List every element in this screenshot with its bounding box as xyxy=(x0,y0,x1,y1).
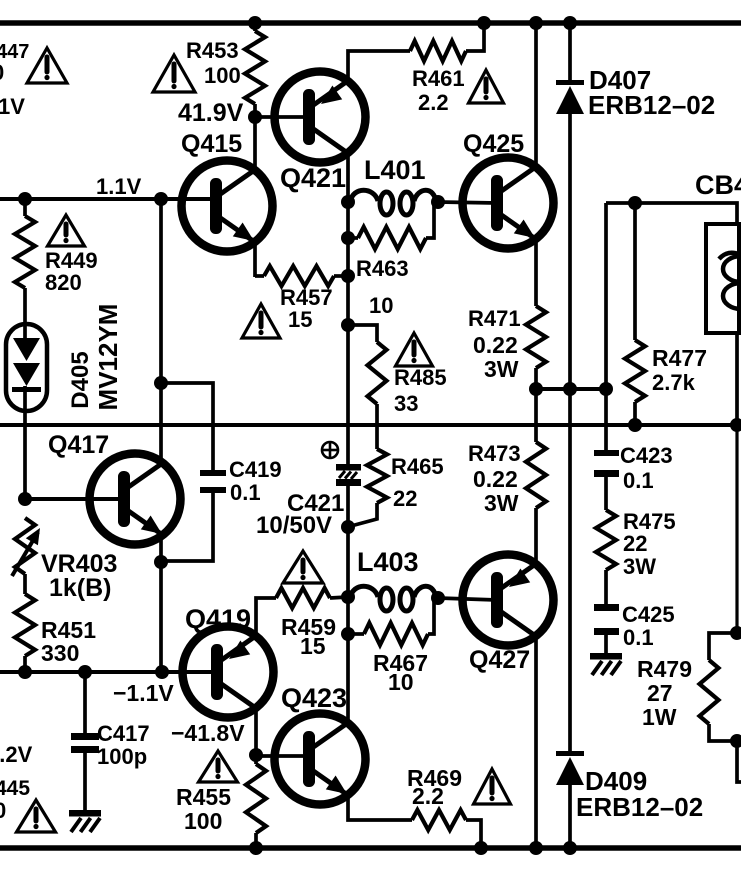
warning triangle xyxy=(474,769,511,804)
wire CB4 feed line xyxy=(606,203,737,226)
node emitter resistor junction xyxy=(529,382,543,396)
svg-text:447: 447 xyxy=(0,41,29,63)
label C421 xyxy=(256,490,344,539)
svg-text:41.9V: 41.9V xyxy=(178,99,244,127)
node 1.1V junction xyxy=(18,192,32,206)
wire -1.1V rail xyxy=(0,670,219,674)
label R485 xyxy=(394,365,447,416)
svg-text:22: 22 xyxy=(623,531,647,556)
node top rail junction xyxy=(563,16,577,30)
label -1.1V xyxy=(113,680,174,706)
label R471 xyxy=(468,306,521,382)
svg-text:100p: 100p xyxy=(97,744,147,769)
label 1.1V xyxy=(96,174,142,199)
warning triangle xyxy=(153,55,195,92)
wire Q425 emitter xyxy=(534,239,538,306)
label R475 xyxy=(623,509,676,579)
wire xyxy=(23,409,27,499)
svg-text:0.1: 0.1 xyxy=(623,625,654,650)
label R449 xyxy=(45,248,98,295)
wire Q417 base xyxy=(25,497,125,501)
node L401 left junction xyxy=(341,195,355,209)
svg-text:−41.8V: −41.8V xyxy=(171,720,245,746)
wire xyxy=(534,368,538,389)
wire xyxy=(23,199,27,216)
wire xyxy=(346,486,350,723)
label (cut) xyxy=(0,60,4,85)
label R469 xyxy=(407,765,462,809)
wire 1.1V rail xyxy=(0,197,218,201)
wire xyxy=(466,820,481,848)
warning triangle xyxy=(48,215,85,246)
svg-text:R473: R473 xyxy=(468,441,521,466)
label D405 xyxy=(67,351,94,408)
svg-text:10: 10 xyxy=(388,669,414,695)
wire Q417 emitter xyxy=(159,535,163,562)
label R463 xyxy=(356,256,409,318)
transistor Q425 xyxy=(463,158,554,249)
svg-text:27: 27 xyxy=(647,680,673,706)
wire xyxy=(568,114,572,389)
resistor R449 xyxy=(15,216,35,288)
wire xyxy=(568,23,572,81)
transistor Q427 xyxy=(463,555,554,646)
node junction xyxy=(78,665,92,679)
wire xyxy=(604,389,608,451)
resistor R479 xyxy=(700,633,738,741)
svg-text:R455: R455 xyxy=(176,784,231,810)
wire Q417 collector xyxy=(159,199,163,463)
svg-text:Q427: Q427 xyxy=(469,646,530,674)
svg-text:22: 22 xyxy=(393,486,417,511)
svg-text:Q417: Q417 xyxy=(48,431,109,459)
wire xyxy=(604,477,608,510)
resistor R477 xyxy=(625,203,645,425)
svg-text:R479: R479 xyxy=(637,656,692,682)
node bottom rail junction xyxy=(474,841,488,855)
svg-text:R485: R485 xyxy=(394,365,447,390)
wire xyxy=(23,574,27,594)
wire xyxy=(375,404,379,449)
node top rail junction xyxy=(248,16,262,30)
transistor Q421 xyxy=(275,72,366,163)
svg-text:C423: C423 xyxy=(620,443,673,468)
label VR403 xyxy=(41,550,117,602)
warning triangle xyxy=(17,800,56,832)
svg-text:2.2: 2.2 xyxy=(418,90,449,115)
label R473 xyxy=(468,441,521,516)
node L401 right junction xyxy=(431,195,445,209)
svg-text:0: 0 xyxy=(0,798,6,823)
ground xyxy=(69,810,101,832)
node junction xyxy=(599,382,613,396)
relay coil CB4 box xyxy=(706,224,741,333)
wire xyxy=(330,597,348,598)
diode D407 xyxy=(556,80,584,114)
svg-text:0.22: 0.22 xyxy=(473,332,518,358)
svg-text:1.2V: 1.2V xyxy=(0,742,33,767)
label R451 xyxy=(41,617,96,666)
wire xyxy=(604,203,608,389)
label Q421 xyxy=(280,163,346,193)
node R467 left junction xyxy=(341,627,355,641)
node bottom rail junction xyxy=(563,841,577,855)
warning triangle xyxy=(283,551,323,583)
capacitor C417 xyxy=(71,733,99,810)
svg-text:10/50V: 10/50V xyxy=(256,512,332,539)
svg-text:1.1V: 1.1V xyxy=(96,174,142,199)
resistor R467 xyxy=(348,600,434,645)
label Q415 xyxy=(181,130,242,158)
svg-text:0.1: 0.1 xyxy=(623,468,654,493)
svg-text:0.22: 0.22 xyxy=(473,466,518,492)
svg-text:2.7k: 2.7k xyxy=(652,370,696,395)
label Q427 xyxy=(469,646,530,674)
svg-text:R465: R465 xyxy=(391,454,444,479)
diode D409 xyxy=(556,751,584,785)
warning triangle xyxy=(242,304,280,338)
svg-text:10: 10 xyxy=(369,293,393,318)
svg-text:CB4: CB4 xyxy=(695,170,741,200)
label Q419 xyxy=(185,604,251,634)
label C419 xyxy=(229,457,282,505)
capacitor C419 xyxy=(161,383,226,561)
svg-text:MV12YM: MV12YM xyxy=(93,304,123,411)
svg-text:L403: L403 xyxy=(357,547,419,577)
inductor L401 xyxy=(350,190,436,215)
node R485 branch junction xyxy=(341,318,355,332)
transistor Q415 xyxy=(182,161,273,252)
svg-text:ERB12–02: ERB12–02 xyxy=(576,792,703,822)
svg-text:D405: D405 xyxy=(67,351,94,408)
svg-text:15: 15 xyxy=(288,307,312,332)
node D405/VR403/Q417 base junction xyxy=(18,492,32,506)
label 41.1V (cut) xyxy=(0,94,25,119)
wire Q427 collector xyxy=(534,636,538,848)
node -41.8V junction xyxy=(249,748,263,762)
label MV12YM xyxy=(93,304,123,411)
label Q423 xyxy=(281,683,347,713)
label C423 xyxy=(620,443,673,493)
svg-text:Q419: Q419 xyxy=(185,604,251,634)
svg-text:3W: 3W xyxy=(484,490,519,516)
svg-text:C417: C417 xyxy=(97,721,150,746)
label D407 xyxy=(588,65,715,120)
svg-text:Q423: Q423 xyxy=(281,683,347,713)
label 1.2V (cut) xyxy=(0,742,33,767)
warning triangle xyxy=(469,70,504,103)
wire xyxy=(534,389,538,442)
resistor R455 xyxy=(246,755,266,848)
wire xyxy=(568,785,572,848)
svg-text:2.2: 2.2 xyxy=(412,783,444,809)
svg-text:1k(B): 1k(B) xyxy=(49,574,112,602)
node 41.9V xyxy=(248,110,262,124)
ground xyxy=(590,653,622,675)
transistor Q423 xyxy=(275,714,366,805)
warning triangle xyxy=(199,751,238,782)
node R479 bottom junction xyxy=(730,734,741,748)
warning triangle xyxy=(27,48,67,83)
wire xyxy=(348,325,377,342)
wire Q419 collector xyxy=(254,708,258,755)
wire +B top rail xyxy=(0,20,741,26)
resistor R485 xyxy=(368,342,387,404)
node -1.1V junction xyxy=(18,665,32,679)
svg-text:3W: 3W xyxy=(484,356,519,382)
label R477 xyxy=(652,345,707,395)
label Q417 xyxy=(48,431,109,459)
wire xyxy=(334,274,348,278)
resistor R463 xyxy=(348,204,434,249)
resistor R453 xyxy=(245,23,265,117)
capacitor C421 polarity xyxy=(322,442,338,458)
wire Q421 emitter xyxy=(348,51,410,83)
svg-text:R463: R463 xyxy=(356,256,409,281)
node L403 right junction xyxy=(431,591,445,605)
warning triangle xyxy=(396,333,433,366)
wire xyxy=(83,672,87,733)
wire xyxy=(159,562,163,672)
resistor R451 xyxy=(15,594,35,656)
svg-text:3W: 3W xyxy=(623,554,656,579)
resistor R461 xyxy=(410,41,466,61)
wire Q425 base xyxy=(438,202,497,203)
svg-text:33: 33 xyxy=(394,391,418,416)
capacitor C425 xyxy=(594,604,619,635)
node 1.1V/base line junction xyxy=(154,192,168,206)
svg-text:R477: R477 xyxy=(652,345,707,371)
label L401 xyxy=(364,155,426,185)
label -41.8V xyxy=(171,720,245,746)
label C417 xyxy=(97,721,150,769)
wire Q421 collector xyxy=(346,153,350,203)
label R461 xyxy=(412,66,465,115)
label R467 xyxy=(373,650,428,695)
resistor R469 xyxy=(412,810,466,830)
wire xyxy=(735,333,739,425)
capacitor C423 xyxy=(594,450,619,477)
node top rail junction xyxy=(477,16,491,30)
node junction xyxy=(563,382,577,396)
svg-text:C419: C419 xyxy=(229,457,282,482)
svg-text:ERB12–02: ERB12–02 xyxy=(588,90,715,120)
label R453 xyxy=(186,38,241,88)
wire xyxy=(23,656,27,672)
label R459 xyxy=(281,614,336,659)
label R447 (cut) xyxy=(0,41,29,63)
wire xyxy=(604,635,608,653)
svg-text:0: 0 xyxy=(0,60,4,85)
svg-text:100: 100 xyxy=(184,808,222,834)
wire Q415 emitter xyxy=(255,242,264,277)
wire Q423 emitter xyxy=(348,795,412,820)
wire Q423 base xyxy=(256,754,303,758)
wire output mid rail xyxy=(0,423,741,427)
wire xyxy=(256,598,276,636)
resistor R471 xyxy=(526,306,546,368)
node C421/R465 junction xyxy=(341,520,355,534)
wire -B bottom rail xyxy=(0,845,741,851)
capacitor C421 xyxy=(336,464,361,486)
wire xyxy=(604,570,608,605)
wire xyxy=(23,288,27,326)
wire junction row xyxy=(536,387,606,391)
svg-text:820: 820 xyxy=(45,270,82,295)
label CB4 xyxy=(695,170,741,200)
wire center column upper xyxy=(346,202,350,464)
wire Q421 base xyxy=(255,115,303,119)
node junction xyxy=(155,665,169,679)
variable resistor VR403 xyxy=(12,518,40,576)
label D409 xyxy=(576,766,703,822)
label 41.9V xyxy=(178,99,244,127)
resistor R475 xyxy=(596,510,616,570)
svg-text:1W: 1W xyxy=(642,704,677,730)
svg-text:L401: L401 xyxy=(364,155,426,185)
node L403 left junction xyxy=(341,590,355,604)
label Q425 xyxy=(463,130,524,158)
node bottom rail junction xyxy=(529,841,543,855)
svg-text:R453: R453 xyxy=(186,38,239,63)
svg-text:Q425: Q425 xyxy=(463,130,524,158)
label R445 (cut) xyxy=(0,777,30,800)
wire Q415 collector xyxy=(253,117,257,170)
svg-text:C425: C425 xyxy=(622,602,675,627)
svg-text:0.1: 0.1 xyxy=(230,480,261,505)
svg-text:R461: R461 xyxy=(412,66,465,91)
wire xyxy=(735,425,738,633)
wire xyxy=(568,389,572,752)
resistor R457 xyxy=(264,266,334,286)
label R479 xyxy=(637,656,692,730)
resistor R465 xyxy=(367,449,387,503)
inductor L403 xyxy=(350,586,436,611)
diode D405 xyxy=(6,324,47,411)
node mid rail junction xyxy=(730,418,741,432)
label R465 xyxy=(391,454,444,511)
resistor R459 xyxy=(276,588,330,608)
node top rail junction xyxy=(529,16,543,30)
svg-text:445: 445 xyxy=(0,777,30,800)
wire xyxy=(466,23,484,51)
node R479 top junction xyxy=(730,626,741,640)
node bottom rail junction xyxy=(249,841,263,855)
node R477 bottom junction xyxy=(628,418,642,432)
svg-text:330: 330 xyxy=(41,640,79,666)
label L403 xyxy=(357,547,419,577)
svg-text:100: 100 xyxy=(204,63,241,88)
node Q417 collector/C419 junction xyxy=(154,376,168,390)
svg-text:15: 15 xyxy=(300,633,326,659)
wire Q427 base xyxy=(438,598,497,600)
transistor Q417 xyxy=(90,454,181,545)
svg-text:1V: 1V xyxy=(0,94,25,119)
node Q417 emitter/C419 junction xyxy=(154,555,168,569)
label C425 xyxy=(622,602,675,650)
label (cut) xyxy=(0,798,6,823)
node junction xyxy=(341,269,355,283)
wire xyxy=(351,503,377,526)
svg-text:−1.1V: −1.1V xyxy=(113,680,174,706)
wire Q427 emitter xyxy=(534,508,538,565)
wire xyxy=(737,741,741,782)
svg-text:Q415: Q415 xyxy=(181,130,242,158)
resistor R473 xyxy=(526,442,546,508)
svg-text:R471: R471 xyxy=(468,306,521,331)
svg-text:Q421: Q421 xyxy=(280,163,346,193)
node R477 top junction xyxy=(628,196,642,210)
node R463 left junction xyxy=(341,231,355,245)
label R455 xyxy=(176,784,231,834)
label R457 xyxy=(280,285,333,332)
wire Q425 collector xyxy=(534,23,538,167)
transistor Q419 xyxy=(183,627,274,718)
